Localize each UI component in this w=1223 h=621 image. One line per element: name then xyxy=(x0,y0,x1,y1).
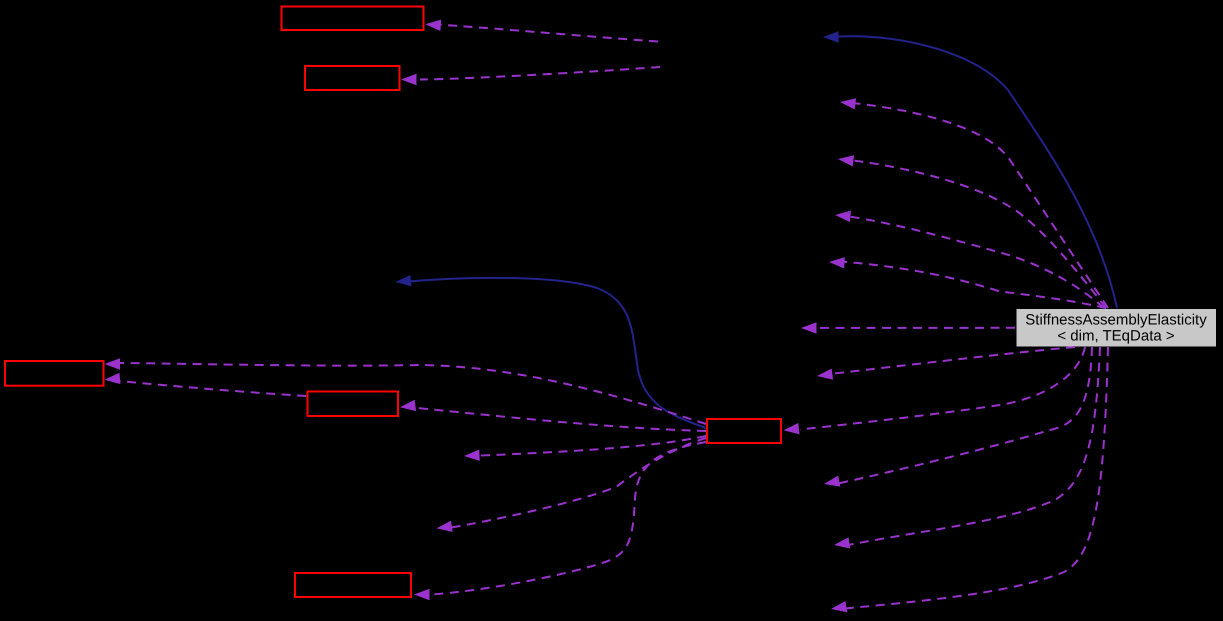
svg-text:< dim, TEqData >: < dim, TEqData > xyxy=(1057,328,1175,345)
svg-text:StiffnessAssemblyElasticity: StiffnessAssemblyElasticity xyxy=(1025,312,1207,329)
